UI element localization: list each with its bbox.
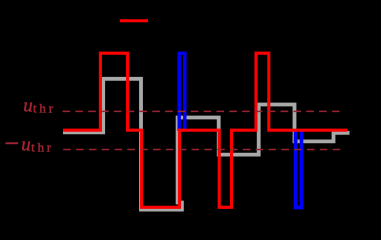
threshold dashed line +u_thr xyxy=(63,110,342,112)
axis label -u_thr minus sign xyxy=(6,142,19,144)
red ternary signal polyline xyxy=(63,53,348,207)
threshold dashed line -u_thr xyxy=(63,149,341,151)
blue pulse B (down, x~294-303) xyxy=(296,130,302,208)
legend red line sample xyxy=(120,19,148,22)
blue pulse A (up, x~177-186) xyxy=(179,53,185,131)
gray distorted signal polyline xyxy=(63,79,350,210)
